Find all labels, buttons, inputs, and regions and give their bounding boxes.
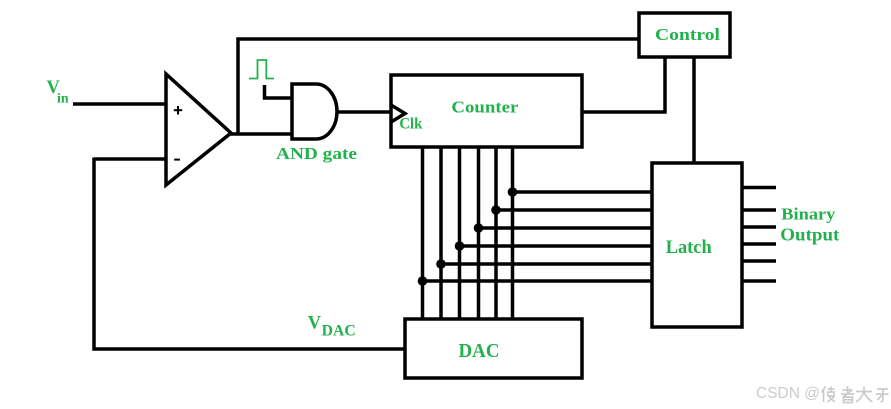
svg-text:Latch: Latch: [666, 238, 713, 258]
svg-text:V: V: [308, 314, 322, 334]
svg-text:in: in: [57, 92, 69, 107]
svg-text:Control: Control: [655, 25, 720, 44]
svg-text:Clk: Clk: [399, 115, 422, 132]
svg-text:Counter: Counter: [451, 98, 518, 117]
svg-text:DAC: DAC: [322, 323, 356, 340]
svg-text:Binary: Binary: [781, 205, 836, 224]
svg-text:AND gate: AND gate: [276, 144, 358, 163]
svg-text:CSDN @: CSDN @: [756, 385, 820, 402]
svg-text:DAC: DAC: [459, 341, 500, 362]
svg-text:Output: Output: [780, 225, 839, 245]
